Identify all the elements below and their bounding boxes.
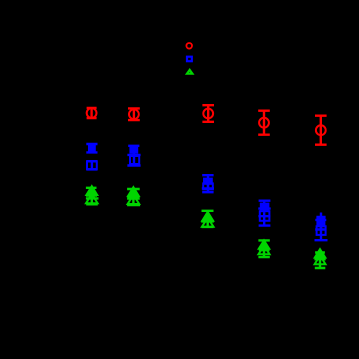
legend green triangle marker — [187, 70, 192, 74]
C1 blue B open square point — [87, 162, 97, 170]
C4 red circle point — [259, 118, 269, 128]
C1 blue A error bar — [86, 144, 97, 153]
C4 blue B error bar — [258, 213, 270, 227]
C2 blue A square point (filled look) — [129, 147, 138, 154]
C4 green B error bar — [258, 251, 269, 258]
C4 green A open triangle point — [258, 240, 269, 249]
C1 green A error bar — [86, 187, 97, 197]
C3 green B open triangle point — [202, 218, 214, 227]
C5 red error bar — [315, 115, 327, 145]
C1 blue B error bar — [86, 161, 97, 170]
C3 blue B open square point — [203, 183, 213, 189]
C2 blue B open square point — [130, 156, 139, 164]
C5 green B open triangle point — [315, 255, 326, 264]
C5 blue B open square point — [317, 226, 326, 235]
C4 green A error bar — [258, 240, 269, 251]
C2 green B open triangle point — [128, 195, 140, 204]
C1 red circle point — [87, 108, 97, 118]
C5 blue A square point (filled look) — [316, 218, 325, 227]
C3 blue A square point (filled look) — [203, 178, 213, 185]
C5 red circle point — [316, 125, 326, 135]
C2 green A error bar — [127, 188, 140, 198]
C3 green A open triangle point — [202, 212, 214, 221]
C3 blue A error bar — [202, 175, 214, 189]
C2 red circle point — [129, 109, 139, 119]
C1 blue A square point (filled look) — [88, 144, 96, 152]
C5 green A open triangle point — [314, 249, 325, 258]
legend red circle marker — [186, 43, 192, 49]
C5 blue B error bar — [315, 226, 328, 241]
C4 blue A error bar — [258, 200, 270, 213]
legend blue square marker — [187, 57, 192, 62]
C5 green B error bar — [315, 259, 326, 269]
C3 green B error bar — [202, 222, 214, 228]
C5 green A error bar — [314, 250, 325, 261]
C5 blue A error bar — [315, 213, 326, 231]
C1 red error bar — [87, 107, 97, 118]
C1 green B error bar — [86, 196, 99, 205]
C2 blue B error bar — [127, 156, 140, 167]
C2 blue A error bar — [127, 145, 140, 155]
C4 blue A square point (filled look) — [260, 203, 270, 211]
C1 green B open triangle point — [86, 194, 98, 203]
C3 red error bar — [202, 105, 214, 122]
C4 blue B open square point — [260, 211, 270, 221]
C4 red error bar — [258, 110, 270, 135]
C3 green A error bar — [201, 210, 214, 222]
C2 green A open triangle point — [128, 187, 140, 197]
C3 red circle point — [203, 109, 213, 119]
C3 blue B error bar — [202, 182, 213, 193]
C2 green B error bar — [127, 197, 140, 206]
C1 green A open triangle point — [86, 186, 98, 195]
C4 green B open triangle point — [258, 246, 269, 255]
C2 red error bar — [128, 108, 140, 121]
